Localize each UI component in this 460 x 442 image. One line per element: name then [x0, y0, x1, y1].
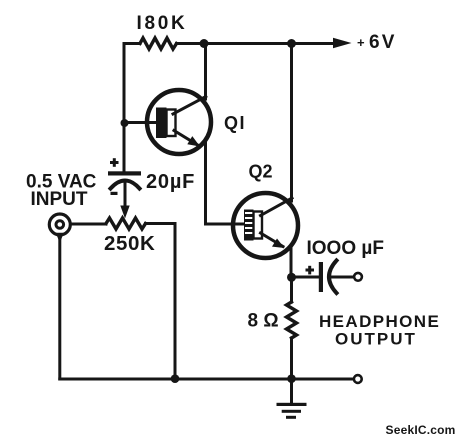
- capacitor C1 20uF: [108, 171, 141, 206]
- svg-text:SeekIC.com: SeekIC.com: [386, 423, 456, 437]
- svg-text:QI: QI: [224, 113, 246, 133]
- wire: Q1 collector riser: [204, 44, 207, 100]
- capacitor C2 1000uF: [319, 261, 354, 294]
- output terminal (return): [354, 375, 362, 383]
- wire: pot right to bottom rail riser: [146, 224, 176, 379]
- label + (C2 polarity): [306, 266, 315, 275]
- wire: input terminal down to bottom rail: [58, 235, 61, 379]
- wire: Q2 emitter down to output node: [290, 248, 293, 278]
- svg-text:6V: 6V: [369, 32, 397, 53]
- svg-text:HEADPHONE: HEADPHONE: [319, 312, 440, 331]
- svg-text:8 Ω: 8 Ω: [248, 311, 279, 332]
- junction dot Q1 base node: [121, 119, 129, 127]
- wire: input terminal to pot: [71, 223, 107, 226]
- wire: Q1 base: [124, 121, 156, 124]
- output terminal (hot): [354, 273, 362, 281]
- input terminal J1: [49, 214, 70, 243]
- junction dot pot return: [171, 374, 180, 383]
- wire: node to C2: [292, 276, 319, 279]
- resistor R1 180K zigzag: [140, 38, 177, 49]
- svg-text:INPUT: INPUT: [31, 189, 88, 210]
- svg-text:I80K: I80K: [137, 13, 188, 34]
- bottom ground rail wire: [60, 378, 354, 381]
- wire: left vertical + top-left corner: [124, 44, 140, 172]
- potentiometer wiper arrow: [120, 206, 129, 219]
- svg-text:OUTPUT: OUTPUT: [335, 330, 417, 349]
- label + (C1 polarity): [110, 158, 119, 167]
- transistor Q1: [147, 90, 211, 154]
- svg-text:+: +: [357, 35, 365, 50]
- junction dot node B (+6V rail / Q2 collector): [287, 39, 296, 48]
- wire: R3 to ground rail: [290, 338, 293, 379]
- label - (C1 polarity): [111, 192, 118, 195]
- junction dot Q2 emitter node: [287, 273, 296, 282]
- wire: Q2 collector riser from +6V rail: [290, 44, 293, 202]
- resistor R3 8 ohm zigzag: [287, 302, 297, 338]
- label +6V: [357, 32, 397, 53]
- ground symbol: [277, 403, 307, 419]
- junction dot node A (R1 / Q1 collector): [200, 39, 209, 48]
- power +6V arrowhead: [333, 38, 352, 48]
- potentiometer R2 250K track: [106, 218, 146, 229]
- wire: ground node to ground symbol: [290, 379, 293, 403]
- svg-text:IOOO µF: IOOO µF: [307, 238, 384, 259]
- transistor Q2: [233, 193, 298, 258]
- svg-text:20µF: 20µF: [146, 171, 195, 193]
- wire: top rail to +6V arrow: [177, 42, 335, 45]
- wire: Q1 emitter to Q2 base: [206, 142, 244, 224]
- svg-text:250K: 250K: [104, 232, 155, 255]
- junction dot ground node: [287, 374, 296, 383]
- svg-text:Q2: Q2: [249, 162, 273, 182]
- wire: node down to R3: [290, 278, 293, 303]
